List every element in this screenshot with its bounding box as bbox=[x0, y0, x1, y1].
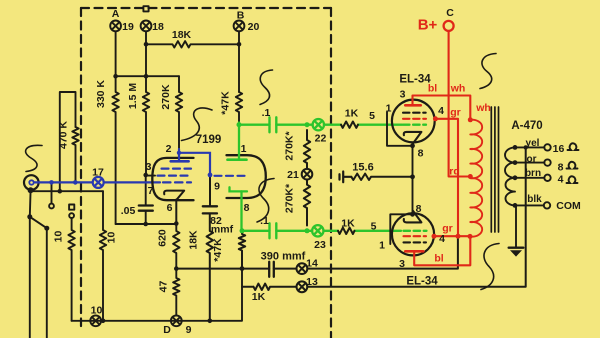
capacitor C 390mmf plates bbox=[269, 262, 274, 277]
capacitor C .1 upper plates bbox=[270, 117, 277, 132]
upper EL34 plate bar bbox=[405, 104, 420, 107]
wire 1K to upper EL34 grid bbox=[358, 124, 402, 126]
capacitor C 82mmf plates bbox=[203, 206, 217, 213]
wire coil bottom to lower plate bbox=[414, 237, 470, 266]
svg-text:620: 620 bbox=[157, 229, 169, 247]
wire switch A to bottom bbox=[29, 217, 31, 338]
resistor R 18K top bbox=[146, 41, 239, 47]
tube V3 EL-34 lower envelope bbox=[392, 213, 434, 255]
svg-text:COM: COM bbox=[556, 200, 581, 212]
svg-text:22: 22 bbox=[315, 133, 327, 145]
resistor R 270K upper of divider bbox=[304, 130, 310, 169]
wire X22 to 1K bbox=[324, 124, 341, 126]
wire upper pin1 bracket bbox=[387, 112, 413, 146]
node .05 bottom bbox=[143, 222, 148, 227]
svg-text:wh: wh bbox=[450, 83, 466, 95]
wire .05 to cathode bbox=[116, 223, 177, 225]
svg-text:D: D bbox=[163, 324, 171, 336]
red plate/screen wiring bbox=[403, 21, 482, 265]
svg-text:6: 6 bbox=[167, 202, 173, 214]
svg-text:270K: 270K bbox=[160, 84, 172, 110]
resistor R 15.6 bbox=[351, 174, 412, 180]
pentode plate lead pin2 bbox=[178, 149, 180, 160]
wire brn tap bbox=[515, 177, 544, 179]
omega 4 bbox=[567, 176, 578, 183]
wire screens tap bbox=[434, 235, 470, 237]
ground symbol bbox=[509, 246, 524, 248]
svg-text:blk: blk bbox=[527, 194, 542, 205]
wire upper cathode lead bbox=[412, 143, 414, 214]
svg-text:2: 2 bbox=[166, 143, 172, 155]
capacitor C .05 plates bbox=[139, 206, 153, 211]
svg-text:7199: 7199 bbox=[196, 134, 222, 146]
svg-text:3: 3 bbox=[400, 89, 406, 101]
svg-text:8: 8 bbox=[418, 148, 424, 160]
resistor R 1K bottom bbox=[254, 284, 297, 290]
node tap brn bbox=[513, 175, 518, 180]
wire blue grid line bbox=[34, 181, 160, 183]
svg-text:18K: 18K bbox=[188, 230, 200, 250]
triode plate bar (green) bbox=[228, 158, 247, 161]
resistor R 10 left bbox=[68, 218, 74, 321]
dashed boundary right bbox=[330, 8, 332, 338]
wire X18 down bbox=[145, 31, 147, 76]
wire upper plate to coil top bbox=[413, 96, 471, 120]
lower EL34 plate bar bbox=[405, 250, 423, 253]
wire 1K to lower EL34 grid bbox=[355, 230, 402, 232]
sine squiggle S1 (input) bbox=[26, 145, 42, 171]
node lower pin4 bbox=[432, 234, 437, 239]
lower EL34 cathode bbox=[404, 211, 422, 223]
transformer T1 secondary coil bbox=[505, 147, 515, 205]
triode grid dashes bbox=[215, 175, 250, 177]
svg-text:15.6: 15.6 bbox=[352, 162, 373, 174]
node screens tap left bbox=[456, 234, 461, 239]
node green upper bbox=[237, 122, 242, 127]
node cathode bus 15.6 bbox=[410, 174, 415, 179]
jack sleeve lug bbox=[28, 187, 34, 193]
transformer T1 primary coil bbox=[470, 120, 482, 237]
square terminal above R10 left bbox=[69, 205, 74, 210]
node upper cathode bbox=[410, 143, 415, 148]
output lug COM bbox=[544, 202, 550, 208]
svg-text:9: 9 bbox=[214, 181, 220, 193]
wire B+ to center tap bbox=[449, 31, 471, 177]
svg-text:10: 10 bbox=[106, 232, 118, 244]
svg-text:270K*: 270K* bbox=[284, 183, 296, 213]
node sleeve junction bbox=[58, 189, 63, 194]
svg-text:.1: .1 bbox=[260, 215, 269, 227]
terminal X19 bbox=[110, 21, 121, 32]
terminal X23 (green) bbox=[312, 225, 323, 236]
svg-text:1K: 1K bbox=[345, 108, 359, 120]
svg-text:21: 21 bbox=[287, 169, 299, 181]
capacitor C .1 lower plates bbox=[270, 223, 277, 238]
wire 1K jog bbox=[242, 286, 254, 288]
resistor R 620 bbox=[173, 224, 179, 269]
svg-text:*47K: *47K bbox=[220, 91, 232, 115]
resistor R 330K bbox=[112, 76, 118, 224]
node screens tap coil bbox=[468, 234, 473, 239]
sine squiggle S5 (top right) bbox=[480, 54, 496, 89]
terminal X22 (green) bbox=[313, 119, 324, 130]
svg-text:A: A bbox=[112, 8, 120, 20]
svg-text:1K: 1K bbox=[341, 218, 355, 230]
svg-text:13: 13 bbox=[306, 276, 318, 288]
blue input network bbox=[29, 177, 191, 188]
terminal X18 bbox=[141, 21, 152, 32]
svg-text:*47K: *47K bbox=[212, 238, 224, 262]
bias symbol bars bbox=[340, 172, 352, 183]
svg-text:wh: wh bbox=[475, 102, 491, 114]
capacitor C .05 bottom lead bbox=[145, 211, 147, 224]
triode plate lead (green) bbox=[238, 123, 240, 160]
svg-text:14: 14 bbox=[306, 258, 318, 270]
wire grid bus top bbox=[116, 75, 179, 77]
output lug 4 ohm bbox=[544, 175, 550, 181]
resistor R 18K vertical bbox=[207, 214, 213, 321]
sine squiggle S2 (above 7199) bbox=[182, 108, 213, 141]
svg-text:5: 5 bbox=[371, 221, 377, 233]
triode cathode (green) bbox=[230, 187, 248, 191]
node bus dot right10 bbox=[101, 319, 106, 324]
pentode cathode lead bbox=[175, 200, 177, 224]
B+ terminal C circle bbox=[444, 21, 454, 31]
resistor R 47 bbox=[173, 269, 179, 316]
omega 16 bbox=[568, 143, 579, 150]
svg-text:brn: brn bbox=[525, 168, 541, 179]
node coil top bbox=[468, 117, 473, 122]
terminal X17 (blue) bbox=[93, 177, 104, 188]
resistor R 1K lower (black zigzag) bbox=[338, 228, 355, 234]
transformer T1 core lines bbox=[491, 107, 498, 232]
green phase splitter network bbox=[228, 117, 403, 238]
capacitor C 390mmf right lead bbox=[274, 268, 297, 270]
sine squiggle S3 (upper .1) bbox=[260, 70, 273, 105]
node tap yel bbox=[513, 145, 518, 150]
svg-text:4: 4 bbox=[438, 105, 444, 117]
resistor R 1K upper (black zigzag) bbox=[341, 122, 358, 128]
wire upper screen to tap bbox=[435, 119, 458, 236]
svg-text:4: 4 bbox=[558, 174, 564, 186]
svg-text:bl: bl bbox=[428, 83, 437, 95]
svg-text:390 mmf: 390 mmf bbox=[261, 251, 306, 263]
tube V2 EL-34 upper envelope bbox=[392, 100, 435, 143]
resistor R 470K loop bbox=[60, 92, 76, 191]
svg-text:8: 8 bbox=[416, 203, 422, 215]
node 620-47 junction bbox=[174, 266, 179, 271]
svg-text:1.5 M: 1.5 M bbox=[127, 83, 139, 110]
svg-text:1: 1 bbox=[386, 103, 392, 115]
terminal D9 bbox=[171, 315, 182, 326]
svg-text:3: 3 bbox=[146, 161, 152, 173]
dashed boundary top bbox=[81, 7, 331, 9]
node pentode cathode top bbox=[174, 221, 179, 226]
omega symbols bbox=[567, 143, 579, 183]
tube V1 7199 triode envelope bbox=[227, 155, 266, 198]
node bus dot 18K bbox=[208, 319, 213, 324]
wire green lower to cap bbox=[242, 230, 270, 232]
svg-text:bl: bl bbox=[434, 253, 443, 265]
resistor R 47K upper bbox=[236, 92, 242, 123]
node pin9 bbox=[208, 173, 213, 178]
svg-text:8: 8 bbox=[244, 202, 250, 214]
resistor R 47K lower bbox=[239, 232, 245, 269]
wire switch B to bottom bbox=[46, 228, 48, 338]
node 18K right bbox=[237, 42, 242, 47]
svg-text:9: 9 bbox=[186, 324, 192, 336]
upper EL34 g2 dashes (black) bbox=[403, 112, 426, 114]
svg-text:8: 8 bbox=[558, 162, 564, 174]
svg-text:330 K: 330 K bbox=[95, 80, 107, 108]
wire shield stub bbox=[51, 184, 53, 204]
svg-text:20: 20 bbox=[248, 21, 260, 33]
jack tip contact (blue circle) bbox=[29, 180, 33, 184]
svg-text:EL-34: EL-34 bbox=[399, 74, 431, 86]
terminal X20 bbox=[234, 21, 245, 32]
node plate tap bbox=[177, 151, 181, 155]
node screen junction bbox=[143, 173, 148, 178]
wire cap to X22 bbox=[276, 124, 312, 126]
omega 8 bbox=[567, 162, 578, 169]
node coil center tap bbox=[468, 174, 473, 179]
wire switch drop bbox=[29, 193, 32, 217]
svg-text:17: 17 bbox=[92, 167, 104, 179]
square above X18 bbox=[143, 6, 148, 11]
pentode suppressor dashes bbox=[162, 168, 192, 170]
resistor R 470K zigzag bbox=[72, 127, 78, 182]
wire ground bus bottom bbox=[72, 269, 242, 321]
svg-text:gr: gr bbox=[442, 223, 453, 235]
node bus 1.5M bbox=[144, 74, 149, 79]
resistor R 10 right bbox=[100, 191, 106, 321]
node feedback tap bbox=[524, 145, 528, 149]
blue internals of 7199 bbox=[158, 149, 250, 177]
open circle below square bbox=[69, 213, 74, 218]
svg-text:18: 18 bbox=[152, 21, 164, 33]
pentode plate bar bbox=[171, 160, 189, 163]
wire or tap bbox=[515, 162, 544, 164]
node green lower bbox=[240, 228, 245, 233]
wire plate to grid coupling bbox=[179, 153, 210, 175]
wire yel tap bbox=[515, 146, 544, 148]
node green 270K bottom bbox=[305, 228, 310, 233]
node green 270K top bbox=[305, 122, 310, 127]
triode cathode lead (green) bbox=[240, 191, 243, 232]
node lower cathode bbox=[410, 212, 415, 217]
wire secondary to ground bbox=[515, 207, 517, 248]
svg-text:3: 3 bbox=[399, 258, 405, 270]
upper EL34 screen dashes (red) bbox=[403, 118, 426, 120]
wire X13 feedback to 16ohm tap bbox=[307, 147, 525, 286]
svg-text:16: 16 bbox=[553, 143, 565, 155]
svg-text:10: 10 bbox=[91, 305, 103, 317]
svg-text:.05: .05 bbox=[121, 205, 136, 217]
terminal X13 bbox=[297, 281, 308, 292]
pentode cathode bbox=[164, 191, 184, 200]
svg-text:18K: 18K bbox=[172, 29, 192, 41]
node bus 330K bbox=[113, 74, 118, 79]
resistor R 270K lower of divider bbox=[304, 180, 310, 226]
svg-text:.1: .1 bbox=[262, 107, 271, 119]
dashed boundary left bbox=[80, 8, 82, 326]
wire X19 down bbox=[115, 31, 117, 76]
svg-text:10: 10 bbox=[53, 231, 65, 243]
tube V1 7199 pentode envelope bbox=[152, 158, 193, 200]
wire blk tap bbox=[515, 204, 544, 206]
svg-text:1: 1 bbox=[379, 240, 385, 252]
svg-text:270K*: 270K* bbox=[284, 131, 296, 161]
pentode screen dashes bbox=[158, 175, 192, 177]
svg-text:C: C bbox=[446, 7, 454, 19]
svg-text:mmf: mmf bbox=[211, 224, 234, 236]
upper EL34 cathode bbox=[404, 132, 422, 144]
output lug 8 ohm bbox=[544, 159, 550, 165]
wire X14 to screens node bbox=[307, 238, 458, 268]
input jack J1 bbox=[24, 175, 39, 190]
wire sleeve line bbox=[33, 190, 103, 192]
node blue shield bbox=[49, 180, 54, 185]
svg-text:470 K: 470 K bbox=[58, 121, 70, 149]
node upper pin4 bbox=[433, 116, 438, 121]
resistor R 1.5M bbox=[143, 76, 149, 175]
sine squiggle S4 (lower .1) bbox=[257, 179, 274, 223]
node tap or bbox=[513, 160, 518, 165]
svg-text:B: B bbox=[237, 10, 245, 22]
wire X23 to 1K bbox=[324, 230, 339, 232]
node tap blk bbox=[513, 203, 518, 208]
sine squiggle S6 (bottom right) bbox=[481, 244, 499, 290]
svg-text:7: 7 bbox=[148, 185, 154, 197]
wire cap to X23 bbox=[276, 230, 312, 232]
terminal X10 bbox=[90, 315, 101, 326]
svg-text:1K: 1K bbox=[252, 291, 266, 303]
node 18K left bbox=[144, 42, 149, 47]
capacitor C .05 top lead bbox=[145, 175, 147, 205]
svg-text:rd: rd bbox=[449, 166, 460, 178]
wire screen stub bbox=[146, 175, 155, 177]
wire feedback line to 390mmf bbox=[176, 268, 269, 270]
wire X20 down bbox=[238, 31, 240, 92]
node switch contact A bbox=[27, 214, 32, 219]
node blue 470K bbox=[73, 180, 78, 185]
svg-text:19: 19 bbox=[122, 21, 134, 33]
pentode control grid dashes bbox=[163, 181, 191, 183]
lower EL34 g2 dashes (black) bbox=[404, 241, 427, 243]
svg-text:4: 4 bbox=[439, 233, 445, 245]
svg-text:B+: B+ bbox=[418, 17, 438, 34]
node switch contact B bbox=[44, 226, 49, 231]
svg-text:gr: gr bbox=[450, 107, 461, 119]
svg-text:23: 23 bbox=[314, 239, 326, 251]
wire green upper to cap bbox=[239, 124, 270, 126]
svg-text:yel: yel bbox=[526, 138, 540, 149]
svg-text:47: 47 bbox=[158, 281, 170, 293]
svg-text:or: or bbox=[527, 154, 537, 165]
shield open circle bbox=[49, 204, 54, 209]
switch S1 blade bbox=[30, 217, 47, 228]
upper EL34 control grid dashes (green) bbox=[403, 124, 426, 126]
output lug 16 ohm bbox=[544, 144, 550, 150]
terminal X21 bbox=[302, 169, 313, 180]
svg-text:A-470: A-470 bbox=[511, 120, 542, 132]
node 47K-390 junction bbox=[240, 266, 245, 271]
lower EL34 control grid dashes (green) bbox=[404, 230, 427, 232]
wire lower pin1 bracket bbox=[390, 214, 412, 244]
wire plate to triode grid (down leg) bbox=[209, 176, 211, 206]
svg-text:5: 5 bbox=[369, 110, 375, 122]
svg-text:EL-34: EL-34 bbox=[406, 276, 438, 288]
svg-text:1: 1 bbox=[241, 143, 247, 155]
green grid rows inside EL34s bbox=[403, 125, 427, 231]
terminal X14 bbox=[297, 263, 308, 274]
lower EL34 screen dashes (red) bbox=[404, 235, 427, 237]
resistor R 270K left bbox=[176, 76, 182, 149]
